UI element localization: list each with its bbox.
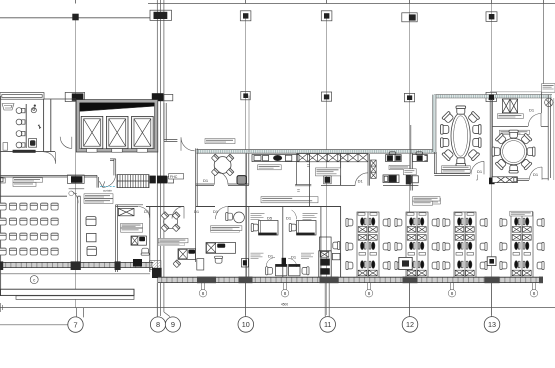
grid line x=409 [409, 4, 411, 316]
office3 shapes [226, 212, 245, 223]
vestibule wall x=309.6 [309, 153, 311, 206]
pantry counter [252, 155, 299, 162]
grid line x=245 [245, 18, 247, 316]
hot desk 1 [386, 152, 402, 162]
AV room wall x=368.6 [368, 154, 370, 186]
grid bubble 8 [150, 283, 165, 332]
corner cabinet room3 [197, 259, 204, 270]
south curtain wall band A (left, stepped) [0, 262, 153, 267]
column F2 x=491 y=96 [486, 92, 496, 101]
grid bubble 7 [0, 308, 84, 332]
office3 walls [247, 153, 249, 277]
svg-text:8: 8 [156, 320, 160, 329]
office2 labels [158, 238, 188, 242]
workstation cluster 3 [443, 212, 487, 278]
grid line x=326 [326, 18, 328, 316]
boardroom bottom wall [434, 174, 470, 176]
WC fixtures [16, 108, 25, 148]
small label left of grid E [403, 169, 416, 175]
full width baseline [0, 307, 555, 309]
conference block west teal wall [433, 95, 437, 174]
open zone label [389, 165, 410, 169]
svg-text:D1: D1 [144, 209, 150, 214]
svg-text:7: 7 [73, 320, 77, 329]
boardroom labels [442, 166, 471, 170]
meeting room cabinet [237, 176, 246, 185]
long dimension bar [1, 289, 135, 295]
faucet mark [38, 125, 41, 130]
hot desk 2 [412, 152, 427, 162]
thin line above north wall [490, 91, 555, 93]
grid bubble 12 [402, 283, 418, 332]
meeting2 round table [500, 138, 526, 164]
svg-text:D1: D1 [477, 169, 483, 174]
meeting2 chairs [492, 130, 535, 173]
mop sink [29, 139, 37, 148]
toilet door [3, 143, 56, 164]
AV room furniture [86, 217, 96, 256]
column D2 x=326 y=96 [321, 92, 331, 101]
meeting room table [211, 154, 233, 176]
store labels [497, 114, 523, 119]
meeting2 label [499, 130, 529, 134]
grid line A vertical x=75 [75, 18, 77, 309]
grid bubble 13 [484, 283, 500, 332]
svg-text:9: 9 [171, 320, 175, 329]
svg-text:FHC: FHC [170, 175, 178, 179]
mullion circle tag [30, 276, 38, 284]
cleaners dark band [13, 150, 36, 153]
corridor column x=75 [67, 175, 84, 183]
column cabinet at wall 247 [241, 259, 248, 267]
office1 desk [131, 236, 149, 255]
conference block north teal wall [434, 95, 552, 98]
column C2 x=245 y=95 [241, 91, 250, 99]
curtain dashed note [100, 185, 116, 187]
column B2 x=158 y=97 [152, 93, 173, 101]
service shaft hatch [150, 261, 161, 270]
curtain wall band [158, 277, 543, 282]
lift shaft 2 [106, 116, 128, 148]
elevator core outer wall [76, 100, 158, 152]
upper area label [205, 139, 235, 144]
lower small offices [251, 253, 315, 276]
small grid tags on dim line [199, 283, 538, 297]
column E2 x=409 y=97 [404, 93, 414, 101]
svg-text:D1: D1 [203, 178, 209, 183]
second bar [16, 296, 134, 300]
wall x=150 office [149, 207, 151, 273]
north wall teal band y=150 [196, 150, 436, 154]
svg-text:D1: D1 [194, 209, 200, 214]
column E1 x=409 y=16 [402, 13, 417, 22]
training room chairs 4x6 [0, 203, 58, 255]
svg-text:D1: D1 [533, 172, 539, 177]
open office label [413, 197, 440, 201]
compartment line x=249 [248, 96, 250, 153]
corridor wall corner stub [97, 175, 99, 187]
door arcs offices [172, 206, 228, 219]
top-right label [542, 84, 555, 93]
workstation cluster 2 [395, 212, 439, 278]
column A1 x=75 y=16 [72, 14, 78, 21]
svg-text:D1: D1 [286, 216, 292, 221]
svg-text:4500: 4500 [281, 303, 288, 307]
lift shaft 3 [132, 116, 154, 148]
svg-text:8: 8 [202, 291, 205, 296]
left building edge [0, 96, 2, 296]
column B1 x=160 y=15 [150, 10, 172, 20]
lower ledge line left [0, 273, 150, 275]
svg-text:8: 8 [284, 291, 287, 296]
cluster4 label [510, 211, 533, 216]
column D1 x=326 y=15 [321, 11, 332, 21]
lobby wall spur [110, 159, 116, 176]
copy cabinet column [319, 237, 340, 277]
basin [31, 105, 36, 113]
wall x=196 [196, 148, 198, 262]
grid bubble 9 [164, 283, 181, 332]
small label [432, 198, 440, 204]
right outer line [553, 98, 555, 180]
svg-text:D5: D5 [267, 216, 273, 221]
lobby exit door arc [181, 137, 195, 151]
boardroom chairs [441, 106, 481, 166]
X tower cabinet [371, 160, 377, 178]
office5 wall x=321 [320, 207, 322, 278]
svg-text:D1: D1 [213, 209, 219, 214]
monitor desk [383, 175, 399, 183]
store closet hatch [117, 175, 149, 188]
dim ticks [297, 165, 309, 191]
svg-text:11: 11 [324, 320, 331, 329]
shaft dark block [152, 268, 162, 278]
vestibule wall y=185 [295, 184, 311, 185]
svg-text:D1: D1 [291, 254, 297, 259]
free column x=491 [487, 257, 496, 266]
svg-text:D1: D1 [358, 179, 364, 184]
grid bubble 11 [320, 283, 336, 332]
fan room wall [541, 92, 543, 113]
wall x=411 [411, 125, 413, 191]
meeting2 top wall [492, 125, 548, 127]
store X closet [502, 99, 517, 113]
training room walls [0, 195, 80, 197]
lower office desks [332, 253, 340, 259]
svg-text:10: 10 [242, 320, 250, 329]
conference east wall [548, 95, 550, 181]
grid bubble 10 [238, 283, 254, 332]
open zone south wall y=185.4 [321, 184, 418, 186]
svg-text:curtain: curtain [103, 189, 112, 193]
toilet room top wall [0, 93, 76, 100]
pantry wall x=296.6 [296, 153, 298, 185]
svg-text:8: 8 [451, 291, 454, 296]
printer unit [399, 257, 412, 269]
dark wall block [406, 175, 412, 185]
FHC box [169, 174, 184, 179]
svg-text:8: 8 [533, 291, 536, 296]
column C1 x=245 y=15 [240, 11, 251, 21]
wall x=491 conference [490, 98, 492, 180]
office2 desk [173, 249, 196, 268]
pantry labels [258, 165, 282, 170]
office3 desk [206, 243, 236, 264]
meeting2 bottom wall [492, 179, 548, 181]
svg-text:12: 12 [406, 320, 414, 329]
meeting room bottom wall [196, 184, 249, 186]
lift lobby side wall [164, 103, 178, 142]
workstation cluster 1 [346, 212, 390, 278]
locker lattice row [297, 154, 368, 162]
column A2 x=75 y=97 [65, 92, 84, 101]
curtain wall column blocks [197, 277, 543, 284]
column F1 x=491 y=15 [486, 12, 497, 22]
office1 top wall [116, 205, 143, 207]
office1 labels [121, 223, 143, 227]
corridor left label boxes [13, 178, 43, 182]
office row top wall y=206 [146, 206, 341, 208]
office5 desk [286, 210, 316, 235]
grid lines section cut x=157-164 [157, 0, 164, 316]
urinal screens [2, 104, 14, 111]
wall x=341 [340, 153, 342, 277]
building edge right x=543 [543, 4, 545, 93]
console table [0, 177, 517, 183]
office2 round table [161, 212, 180, 232]
toilet room walls [0, 99, 55, 151]
office4 desk [251, 216, 278, 236]
svg-text:D1: D1 [529, 107, 535, 112]
office1 X table [118, 208, 134, 215]
riser dark blocks [150, 176, 156, 184]
top section ticks [76, 0, 544, 4]
fan symbol [545, 98, 553, 106]
band A column blocks [71, 261, 81, 270]
AV room wall [116, 205, 118, 272]
grid line x=491 [491, 4, 493, 316]
elevator smoke wedge [80, 103, 155, 112]
corridor south wall y=176 [0, 175, 97, 177]
svg-text:13: 13 [488, 320, 496, 329]
vestibule label box [316, 168, 341, 176]
top-left wall line y=17.5 [0, 17, 150, 19]
corridor door arc [99, 174, 115, 187]
lift door openings [87, 149, 148, 153]
svg-text:8: 8 [368, 291, 371, 296]
office tiny annotations [251, 213, 318, 220]
corridor label boxes [84, 194, 113, 199]
lobby door arc [60, 137, 72, 149]
top boundary line [148, 3, 555, 5]
training room door tag [69, 191, 74, 196]
boardroom oval table [451, 113, 470, 159]
column D mid dark [324, 176, 332, 184]
lift shaft 1 [81, 116, 103, 148]
office4 wall x=283 [282, 207, 284, 278]
workstation cluster 4 [500, 212, 544, 278]
